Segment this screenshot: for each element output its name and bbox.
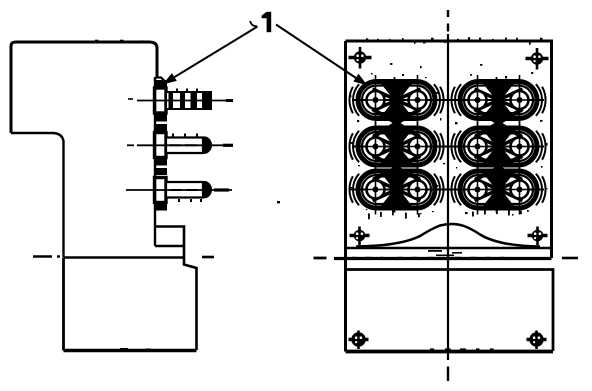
terminal cluster C — [349, 122, 443, 172]
scan noise ticks — [30, 37, 548, 350]
screw hole mid-left — [350, 227, 370, 246]
leader line to front view — [276, 25, 368, 86]
leader line to side view — [163, 27, 258, 85]
lower base block (side view) — [64, 258, 197, 351]
terminal board flange edge (side view) — [155, 77, 167, 246]
horizontal centerline (front view) — [314, 256, 579, 260]
callout label 1 — [250, 12, 271, 32]
screw hole bottom-left — [349, 331, 369, 350]
front panel outline — [346, 41, 552, 352]
panel flange line with hump — [346, 224, 552, 248]
screw hole top-right — [526, 48, 549, 70]
terminal row centerline 3 — [350, 189, 544, 191]
terminal cluster A — [349, 75, 443, 125]
terminal cluster D — [451, 122, 545, 172]
terminal row centerline 2 — [353, 146, 544, 148]
terminal stud S3 (bottom, side view) — [126, 178, 232, 203]
terminal stud S2 (middle, side view) — [127, 133, 233, 158]
terminal cluster E — [349, 165, 443, 215]
terminal cluster B — [451, 75, 545, 125]
screw hole top-left — [349, 47, 372, 69]
lower mounting box (front view) — [346, 270, 554, 352]
flange foot bracket (side view) — [155, 227, 184, 258]
stray speck — [277, 201, 280, 203]
terminal cluster F — [451, 165, 545, 215]
terminal row centerline 1 — [353, 99, 544, 101]
vertical centerline (front view) — [447, 10, 449, 381]
horizontal centerline (side view) — [33, 255, 214, 258]
screw hole bottom-right — [527, 331, 547, 350]
screw hole mid-right — [528, 227, 548, 246]
housing body outline (side view) — [11, 42, 157, 257]
bus link straps between rows — [373, 109, 523, 180]
terminal stud S1 (top, side view) — [128, 88, 233, 113]
